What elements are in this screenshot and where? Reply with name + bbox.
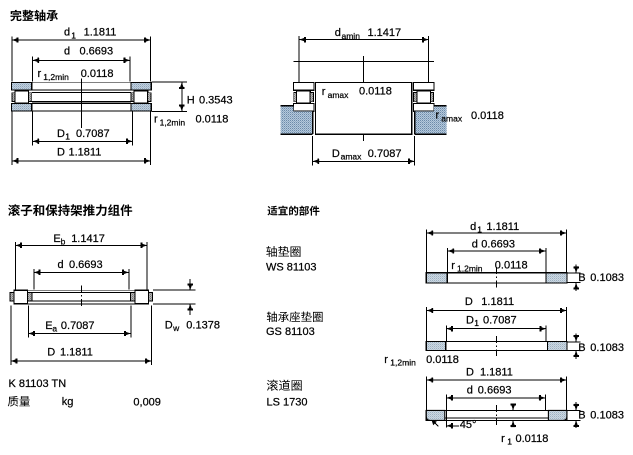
svg-text:amax: amax [341,152,363,162]
dim d extension below (LS ring) [445,410,447,428]
roller left (assembly) [14,290,28,304]
svg-text:kg: kg [62,396,74,408]
svg-text:d: d [467,384,473,396]
center line (GS washer) [496,336,498,356]
svg-text:0.0118: 0.0118 [81,68,114,80]
svg-text:D: D [47,346,55,358]
top shaft washer left section (blue) [11,83,31,90]
svg-text:0.7087: 0.7087 [61,320,95,332]
label shaft washer (轴垫圈) [266,246,300,257]
svg-text:a: a [52,323,57,333]
dim d1 line (WS washer) [427,232,567,234]
roller envelope lines (assembly) [28,289,135,291]
svg-text:amax: amax [328,90,350,100]
svg-text:D: D [57,128,65,140]
svg-text:1: 1 [474,318,479,328]
top washer right (top-right bearing) [413,83,434,91]
center line (LS ring) [496,405,498,425]
dim d line (WS washer) [448,250,546,252]
title: roller and cage thrust assembly (滚子和保持架推力组件) [8,204,132,216]
WS washer body [426,273,567,283]
bottom washer right (top-right bearing) [413,104,434,112]
dim d line (LS ring) [446,397,545,399]
svg-text:0.1083: 0.1083 [590,409,624,421]
svg-text:0.0118: 0.0118 [359,86,392,98]
svg-text:r: r [436,110,440,122]
svg-text:d: d [64,27,70,39]
shaft end rectangle [315,83,411,135]
svg-text:1.1811: 1.1811 [60,346,93,358]
label housing washer (轴承座垫圈) [267,311,323,322]
dim D_w extension lines [153,289,196,291]
svg-text:1.1811: 1.1811 [69,147,102,159]
svg-text:D: D [165,319,173,331]
dim B line (LS) [575,402,577,411]
svg-text:D: D [466,315,474,327]
svg-text:r: r [501,433,505,445]
top shaft washer right section (blue) [131,83,151,90]
bottom housing washer right section (blue) [131,104,151,112]
dim E_b line [15,244,147,246]
top washer projection lines [32,82,131,84]
svg-text:0.3543: 0.3543 [199,95,233,107]
svg-text:D: D [465,296,473,308]
svg-text:D: D [466,366,474,378]
center line (WS washer) [496,267,498,289]
svg-text:B: B [578,272,585,284]
center line (top-left bearing) [80,78,82,128]
dim B extension lines (GS) [567,341,581,343]
cage strips right (top-left bearing) [131,93,134,102]
dim B line (GS) [575,333,577,342]
svg-text:d: d [470,221,476,233]
dim D_amax extension lines [312,136,314,166]
roller left (top-right bearing) [297,91,311,104]
roller right (assembly) [135,290,149,304]
svg-text:0.1083: 0.1083 [590,342,624,354]
GS washer right section (blue) [547,342,567,351]
svg-text:GS 81103: GS 81103 [266,326,315,338]
dim H extension lines [152,81,188,83]
svg-text:K 81103 TN: K 81103 TN [9,378,67,390]
GS washer body [426,342,567,351]
svg-text:0,009: 0,009 [133,397,161,409]
roller right (top-left bearing) [134,91,148,103]
roller band projection lines [32,91,131,93]
dim E_a line [28,333,130,335]
svg-text:1,2min: 1,2min [390,358,416,368]
svg-text:D: D [332,148,340,160]
dim d_amin line [299,39,428,41]
dim D1 line (top-left) [33,140,133,142]
svg-text:w: w [172,323,180,333]
WS washer right section (blue) [546,273,567,283]
bottom housing washer left section (blue) [11,104,31,112]
cage strips left (top-right bearing) [294,93,297,102]
label raceway ring (滚道圈) [267,380,302,391]
bottom washer projection lines [32,103,131,105]
dim B line (WS) [575,265,577,274]
housing block left (blue) [281,106,313,135]
svg-text:1,2min: 1,2min [457,264,483,274]
housing block right (blue) [415,106,447,135]
title: associated parts (适宜的部件) [268,206,320,216]
dim D_w line with arrows [189,279,191,290]
svg-text:D: D [57,147,65,159]
cage outer cap left (gray) [10,292,14,301]
svg-text:1.1417: 1.1417 [368,27,402,39]
dim d line (assembly) [34,271,129,273]
GS washer left section (blue) [426,342,446,351]
dim d1 line (top-left) [12,39,151,41]
svg-text:1.1417: 1.1417 [71,233,105,245]
chamfer leader line (LS ring) [432,421,438,427]
svg-text:0.7087: 0.7087 [76,128,110,140]
cage strip left (assembly) [28,292,32,301]
LS ring right section (blue, chamfered) [548,410,567,420]
WS washer left section (blue) [426,273,447,283]
svg-text:0.0118: 0.0118 [426,354,459,366]
shaft shoulder face line [294,60,434,62]
svg-text:B: B [578,342,585,354]
svg-text:r: r [384,354,388,366]
svg-text:0.0118: 0.0118 [495,260,528,272]
svg-text:1.1811: 1.1811 [480,366,513,378]
svg-text:0.7087: 0.7087 [368,148,402,160]
svg-text:B: B [578,409,585,421]
top washer left (top-right bearing) [293,83,314,91]
svg-text:0.7087: 0.7087 [483,315,517,327]
svg-text:r: r [154,114,158,126]
svg-text:1: 1 [65,132,70,142]
svg-text:0.0118: 0.0118 [471,110,504,122]
center line (assembly) [80,286,82,309]
svg-text:d: d [58,259,64,271]
bottom washer left (top-right bearing) [293,104,314,112]
svg-text:d: d [64,46,70,58]
svg-text:45°: 45° [460,419,477,431]
cage strip right (assembly) [131,292,135,301]
svg-text:H: H [187,95,195,107]
dim D line (LS ring) [427,379,567,381]
dim D line (assembly) [11,360,152,362]
svg-text:0.6693: 0.6693 [80,46,114,58]
dim D line (GS washer) [427,310,567,312]
svg-text:0.1378: 0.1378 [186,319,220,331]
dim D1 line (GS washer) [446,328,546,330]
svg-text:r: r [322,86,326,98]
dim d line (top-left) [33,59,130,61]
svg-text:r: r [38,68,42,80]
dim D_amax line [313,160,415,162]
svg-text:1.1811: 1.1811 [486,221,519,233]
center line (top-right) [363,56,365,84]
cage band lines (assembly) [32,291,131,293]
svg-text:1.1811: 1.1811 [481,296,514,308]
svg-text:0.6693: 0.6693 [478,384,512,396]
svg-text:1: 1 [71,30,76,40]
cage strips left (top-left bearing) [12,93,15,102]
roller right (top-right bearing) [417,91,431,104]
svg-text:d: d [472,238,478,250]
svg-text:1.1811: 1.1811 [84,27,117,39]
svg-text:1,2min: 1,2min [43,72,69,82]
roller left (top-left bearing) [15,91,29,103]
svg-text:1: 1 [507,436,512,446]
LS ring raceway line [445,417,549,419]
svg-text:1,2min: 1,2min [160,118,186,128]
svg-text:LS 1730: LS 1730 [267,396,308,408]
LS ring left section (blue, chamfered) [426,410,445,420]
svg-text:amax: amax [441,114,463,124]
LS ring body [426,410,567,420]
dim B extension lines (LS) [567,410,581,412]
svg-text:0.1083: 0.1083 [590,272,624,284]
dim D line (top-left) [12,160,151,162]
svg-text:0.6693: 0.6693 [69,259,103,271]
svg-text:d: d [335,27,341,39]
chamfer 45 deg arrow [446,425,458,427]
svg-text:0.0118: 0.0118 [196,114,229,126]
cage strips right (top-right bearing) [414,93,417,102]
dim B extension lines (WS) [567,272,581,274]
svg-text:0.6693: 0.6693 [481,238,515,250]
dim r1 line (LS ring) [512,404,514,411]
svg-text:r: r [451,260,455,272]
cage outer cap right (gray) [149,292,153,301]
svg-text:0.0118: 0.0118 [516,433,549,445]
dim H line with arrows [181,82,183,111]
title: complete bearing (完整轴承) [10,10,58,22]
svg-text:WS 81103: WS 81103 [266,262,317,274]
mass label (质量) [8,396,30,407]
